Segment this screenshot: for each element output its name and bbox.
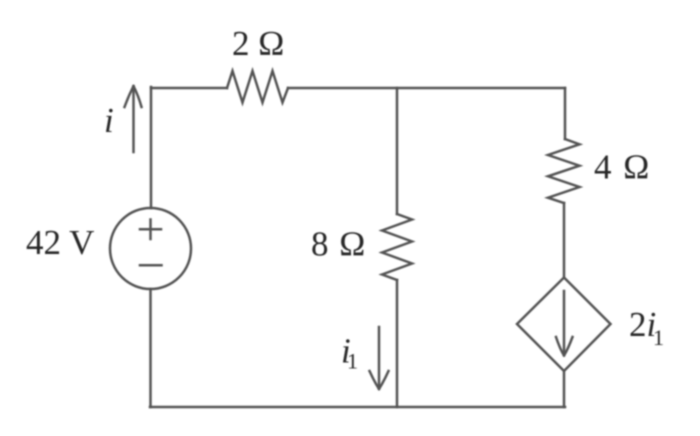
voltage source plus sign <box>140 220 161 240</box>
wire right below diamond <box>563 371 566 407</box>
wire left vertical lower <box>149 289 152 407</box>
dependent source D1 diamond <box>517 278 611 372</box>
wire middle vertical lower <box>396 280 399 407</box>
svg-text:1: 1 <box>347 349 358 374</box>
dependent source arrow shaft <box>563 291 566 353</box>
current arrow i1 shaft <box>378 327 381 388</box>
wire top-left horizontal segment <box>151 87 227 90</box>
svg-text:4 Ω: 4 Ω <box>594 148 649 187</box>
voltage source VS 42V circle <box>110 208 191 289</box>
wire right between resistor and diamond <box>563 203 566 277</box>
current arrow i1 head <box>370 371 389 389</box>
wire bottom horizontal <box>150 406 565 409</box>
wire middle vertical upper <box>396 88 399 214</box>
voltage source minus sign <box>140 264 162 267</box>
svg-text:i: i <box>104 101 114 140</box>
resistor R 2ohm zigzag <box>227 71 288 103</box>
current arrow i shaft <box>132 87 135 152</box>
wire top-right horizontal segment <box>288 87 565 90</box>
svg-text:2 Ω: 2 Ω <box>232 24 284 63</box>
dependent source arrowhead <box>556 337 573 356</box>
svg-text:42 V: 42 V <box>26 223 94 262</box>
svg-text:8 Ω: 8 Ω <box>311 225 365 264</box>
wire right vertical upper <box>564 88 567 139</box>
current arrow i head <box>125 86 142 107</box>
resistor R 4ohm zigzag <box>548 139 580 203</box>
resistor R 8ohm zigzag <box>382 214 412 280</box>
wire left vertical upper <box>150 87 153 208</box>
svg-text:1: 1 <box>653 325 664 350</box>
